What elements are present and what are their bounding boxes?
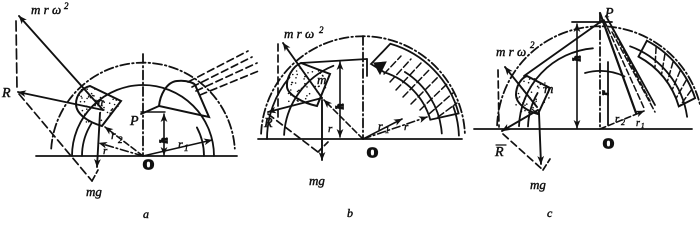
top bar at pivot figure c [572, 21, 612, 23]
weight vector mg figure b [321, 100, 323, 160]
dashed construction line (lower side of parallelogram) figure a [19, 94, 92, 181]
vertical r dimension line figure c [607, 62, 609, 125]
svg-text:P: P [129, 114, 139, 129]
horizontal reference line at pivot figure a [141, 111, 165, 113]
spray dashed lines from right shoe figure a [188, 51, 261, 95]
hatched shoe (annular sector) figure b [371, 44, 459, 120]
radius r line with arrow figure a [99, 143, 143, 156]
svg-text:m: m [317, 72, 326, 87]
svg-text:r: r [615, 113, 620, 125]
svg-text:r: r [178, 137, 183, 151]
rim arc r72 left segment figure c [528, 93, 538, 127]
svg-text:mg: mg [86, 184, 102, 199]
svg-text:c: c [547, 206, 553, 220]
right shoe figure a [159, 81, 209, 117]
svg-text:R: R [1, 86, 11, 101]
reaction vector R figure c [502, 110, 538, 131]
drum outer arc (dash-dot) figure b [261, 36, 465, 133]
svg-text:h: h [572, 56, 583, 61]
rim arc r79 right segment figure b [405, 72, 442, 134]
svg-text:r: r [378, 119, 383, 133]
svg-text:r: r [328, 123, 333, 135]
centrifugal force vector m r omega^2 figure b [283, 43, 322, 98]
rim arc r96 left segment figure b [267, 77, 290, 139]
svg-text:m r ω: m r ω [284, 26, 314, 41]
rim arc r88 right segment figure c [630, 46, 687, 117]
radius r1 line with arrow figure a [143, 140, 212, 156]
dashed construction line (vertical side of parallelogram) figure a [16, 21, 17, 89]
weight vector mg figure c [539, 113, 541, 164]
hatch lines figure b [384, 56, 457, 117]
baseline (axis) figure b [258, 138, 462, 140]
radius r1 line figure b [363, 119, 402, 139]
vertical centerline (dash-dot) figure b [362, 36, 364, 139]
radius r2 line with arrow figure a [105, 127, 143, 156]
svg-text:O: O [603, 137, 614, 152]
svg-text:r: r [636, 118, 640, 129]
pressure rod right edge figure c [606, 16, 655, 105]
radius r2 line with arrow figure c [600, 111, 644, 129]
drum outer arc (dash-dot) figure c [497, 26, 700, 125]
svg-text:r: r [103, 145, 108, 157]
left brake shoe (mass m) figure c [516, 76, 550, 114]
dimension h (double arrow) figure a [163, 114, 165, 155]
svg-text:mg: mg [309, 173, 325, 188]
dimension h line figure b [339, 62, 341, 137]
centrifugal force vector m r omega^2 figure c [505, 67, 537, 107]
centrifugal force vector m r omega^2 figure a [19, 16, 103, 110]
svg-text:1: 1 [184, 143, 189, 153]
dashed construction tail figure b [318, 142, 328, 152]
dashed construction line (vertical) figure b [277, 44, 279, 120]
radius r line (right) figure b [363, 117, 427, 139]
vertical centerline (dash-dot) figure c [599, 14, 601, 129]
link bar from shoe to centerline figure b [301, 59, 367, 63]
svg-text:O: O [367, 146, 378, 161]
svg-text:1: 1 [641, 122, 645, 130]
stipple dots on left shoe figure b [287, 67, 326, 103]
rim arc r81 left segment figure c [519, 48, 593, 126]
wedge at hatched shoe tip figure b [374, 62, 386, 74]
rim arc r79 left segment figure b [284, 66, 333, 135]
svg-text:m r ω: m r ω [31, 2, 61, 17]
link vertical drop figure b [366, 59, 368, 76]
baseline (axis) figure c [474, 128, 692, 130]
vertical centerline (dash-dot) figure a [142, 54, 144, 156]
svg-text:r: r [600, 91, 611, 95]
dashed construction line (lower) figure c [503, 134, 543, 170]
svg-text:2: 2 [64, 1, 69, 11]
dashed construction line (lower) figure b [268, 114, 318, 152]
dashed construction tail figure c [543, 159, 550, 170]
svg-text:P: P [604, 6, 614, 21]
weight vector mg figure a [97, 113, 100, 167]
radius r line (left) figure b [324, 100, 363, 139]
svg-text:2: 2 [621, 118, 625, 127]
reaction vector R figure a [18, 92, 103, 110]
rim arc r61 right segment figure a [197, 127, 204, 156]
svg-text:mg: mg [530, 177, 546, 192]
overbar on R figure c [496, 144, 506, 146]
lever left arm figure c [524, 20, 603, 76]
right shoe hatch figure c [655, 47, 691, 106]
dashed construction line (vertical) figure c [498, 70, 499, 127]
svg-text:m: m [544, 81, 553, 96]
svg-text:h: h [159, 138, 170, 143]
rim arc r96 right segment figure b [453, 106, 459, 135]
rim arc r61 left segment figure a [82, 124, 91, 156]
dashed construction tail to mg figure a [92, 170, 98, 181]
svg-text:a: a [143, 207, 149, 221]
left brake shoe (mass m) figure b [287, 63, 330, 106]
svg-text:O: O [143, 158, 154, 173]
rim arc r58 top segment figure c [585, 71, 625, 76]
stipple dots on left shoe figure a [78, 88, 118, 124]
svg-text:R: R [494, 145, 504, 160]
reaction vector R figure b [268, 98, 322, 112]
left brake shoe (mass m) figure a [76, 86, 121, 126]
svg-text:r: r [111, 128, 116, 142]
rim arc r71 figure a [72, 85, 214, 156]
rod hatch dashed lines figure c [604, 18, 655, 112]
stipple dots on left shoe figure c [515, 78, 549, 113]
svg-text:R: R [263, 116, 273, 131]
baseline (axis) figure a [36, 155, 237, 157]
svg-text:2: 2 [530, 40, 535, 50]
svg-text:m r ω: m r ω [496, 44, 526, 59]
link from right shoe apex to pivot P figure a [141, 106, 159, 114]
svg-text:2: 2 [118, 135, 123, 145]
svg-text:b: b [347, 206, 353, 220]
drum outer arc (dash-dot) figure a [51, 63, 235, 149]
svg-text:r: r [404, 121, 409, 133]
right shoe figure c [639, 41, 696, 107]
svg-text:2: 2 [319, 25, 324, 35]
svg-text:h: h [335, 104, 346, 109]
pressure rod left edge figure c [600, 13, 636, 113]
dimension h line figure c [576, 24, 578, 128]
